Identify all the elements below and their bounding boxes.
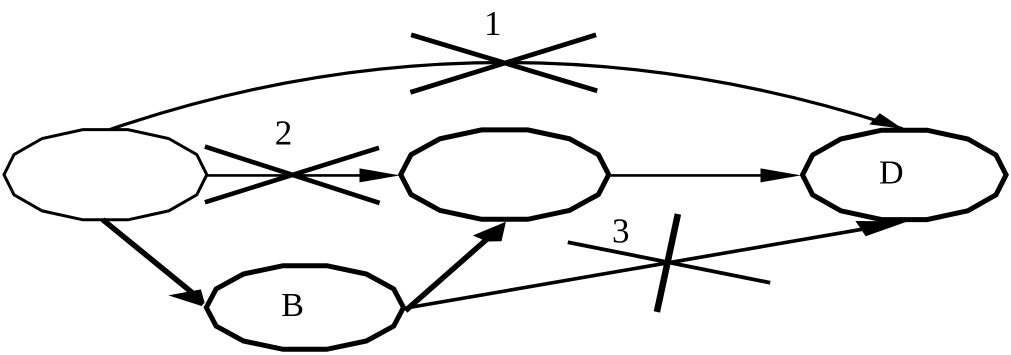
node C (middle unlabeled ellipse, bold) (401, 130, 609, 219)
svg-text:B: B (281, 287, 304, 324)
edge A to B arrowhead (168, 289, 204, 306)
node B (bottom ellipse, bold) (206, 266, 403, 350)
node D (right ellipse, bold) (803, 130, 1007, 219)
cross mark on edge 1 (line a) (411, 35, 597, 91)
edge C to D line (609, 174, 780, 177)
edge B to D arrowhead (855, 221, 908, 236)
cross mark on edge B to D (steep line) (657, 214, 678, 312)
edge C to D arrowhead (761, 168, 802, 182)
cross mark on edge 1 (line b) (410, 35, 596, 93)
edge 1 arrowhead (869, 113, 903, 129)
edge 2 arrowhead (360, 168, 401, 182)
edge 1 curve A to D (110, 62, 903, 129)
node A (left unlabeled ellipse) (4, 130, 207, 220)
cross mark on edge 2 (line a) (205, 147, 380, 203)
svg-text:1: 1 (484, 4, 502, 43)
edge A to B line (bold) (103, 220, 192, 293)
svg-text:D: D (879, 155, 904, 192)
svg-text:2: 2 (275, 113, 293, 152)
cross mark on edge B to D (shallow line) (568, 242, 770, 283)
svg-text:3: 3 (612, 211, 630, 250)
edge B to C arrowhead (473, 222, 506, 242)
edge B to C line (bold) (406, 238, 489, 311)
edge B to D line (403, 226, 880, 308)
cross mark on edge 2 (line b) (205, 148, 379, 203)
edge 2 line A to C (207, 174, 380, 177)
